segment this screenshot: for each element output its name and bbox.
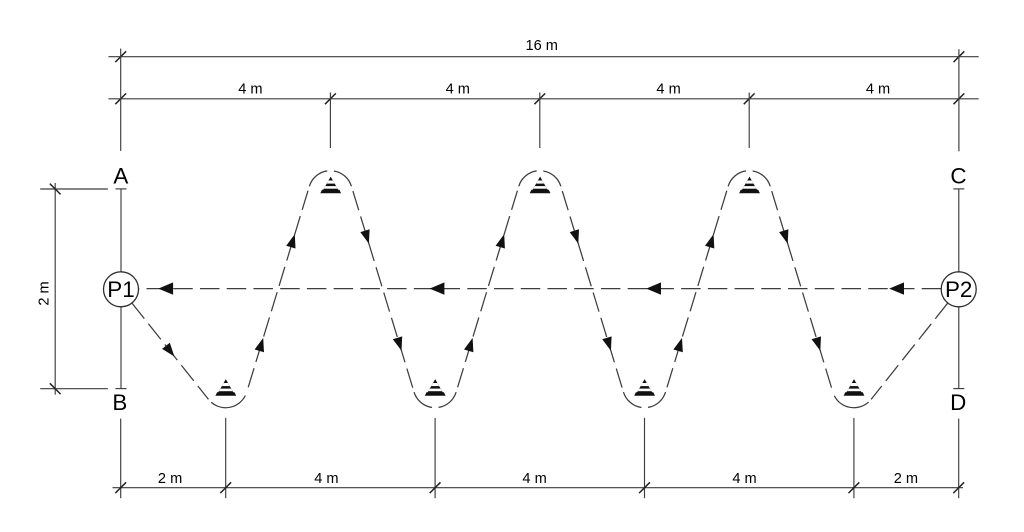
svg-text:2 m: 2 m [894, 471, 918, 487]
slalom arrow up between x644 and x749 [705, 234, 714, 248]
extension line to peak cone 2 [539, 93, 541, 149]
svg-text:4 m: 4 m [732, 471, 756, 487]
svg-text:4 m: 4 m [446, 82, 470, 98]
slalom turn arc around peak cone at x=749 [728, 171, 770, 187]
slalom turn arc around valley cone at x=644 [623, 392, 665, 408]
extension line below valley cone 2 [434, 418, 436, 498]
return arrow 1 [158, 282, 173, 294]
slalom arrow down between x539 and x644 [602, 336, 611, 350]
svg-text:16 m: 16 m [525, 38, 557, 54]
slalom arrow up between x435 and x539 [496, 234, 505, 248]
extension line left at B level [40, 388, 108, 390]
extension line below valley cone 3 [644, 418, 646, 498]
return arrow 3 [646, 282, 661, 294]
slalom arrow up between x435 and x539 [464, 338, 473, 352]
slalom arrow up between x225 and x330 [286, 234, 295, 248]
extension line below D [958, 419, 960, 499]
extension line top left (above A) [120, 49, 122, 151]
return arrow 4 [889, 282, 904, 294]
traffic cone top 1 [320, 177, 341, 194]
extension line to peak cone 1 [329, 93, 331, 149]
traffic cone top 2 [530, 177, 551, 194]
slalom arrow down between x749 and x853 [812, 336, 821, 350]
slalom straight from x=225 to x=330 [247, 186, 310, 392]
svg-text:P2: P2 [945, 277, 972, 302]
dimension line 4 m chain (second row) [108, 82, 978, 105]
point P1 circle [104, 272, 139, 307]
slalom straight P1 down to cone B1 [132, 303, 209, 399]
slalom turn arc around valley cone at x=435 [414, 392, 456, 408]
slalom arrow up between x225 and x330 [255, 338, 264, 352]
slalom straight from x=644 to x=749 [666, 186, 729, 392]
slalom arrow down between x749 and x853 [779, 229, 788, 243]
dimension line 16 m (top) [108, 38, 978, 62]
traffic cone bottom 4 [844, 379, 865, 396]
slalom turn arc around valley cone at x=225 [208, 392, 246, 408]
slalom turn arc around peak cone at x=539 [519, 171, 561, 187]
svg-text:C: C [950, 163, 966, 188]
slalom arrow down between x330 and x435 [393, 336, 402, 350]
svg-text:4 m: 4 m [656, 82, 680, 98]
slalom arrow down between x539 and x644 [570, 229, 579, 243]
slalom turn arc around peak cone at x=330 [309, 171, 351, 187]
traffic cone top 3 [739, 177, 760, 194]
extension line below valley cone 1 [225, 418, 227, 498]
slalom straight from x=330 to x=435 [351, 186, 414, 392]
svg-text:2 m: 2 m [37, 281, 53, 305]
gate line A-B (left start gate) [116, 189, 127, 389]
extension line below B [120, 419, 122, 499]
slalom straight from x=539 to x=644 [561, 186, 624, 392]
svg-text:4 m: 4 m [238, 82, 262, 98]
svg-text:4 m: 4 m [866, 82, 890, 98]
return line P2 to P1 dashed [139, 288, 942, 290]
svg-text:P1: P1 [107, 277, 134, 302]
extension line below valley cone 4 [853, 418, 855, 498]
traffic cone bottom 2 [425, 379, 446, 396]
extension line to peak cone 3 [748, 93, 750, 149]
dimension line 2 m (left vertical) [37, 183, 61, 395]
dimension line bottom chain 2m 4m 4m 4m 2m [113, 471, 965, 493]
svg-text:2 m: 2 m [158, 471, 182, 487]
slalom straight cone B4 up to P2 [871, 303, 948, 399]
slalom arrow segment P1 to cone B1 [162, 343, 174, 357]
extension line left at A level [40, 188, 108, 190]
svg-text:4 m: 4 m [314, 471, 338, 487]
svg-text:4 m: 4 m [522, 471, 546, 487]
slalom arrow up between x644 and x749 [673, 338, 682, 352]
slalom straight from x=749 to x=853 [770, 186, 833, 392]
return arrow 2 [430, 282, 445, 294]
traffic cone bottom 3 [634, 379, 655, 396]
slalom arrow down between x330 and x435 [360, 229, 369, 243]
gate line C-D (right gate) [953, 189, 964, 389]
slalom turn arc around valley cone B4 at x=853 [833, 392, 871, 408]
traffic cone bottom 1 [215, 379, 236, 396]
svg-text:B: B [112, 390, 127, 415]
svg-text:D: D [950, 390, 966, 415]
svg-text:A: A [113, 163, 128, 188]
slalom straight from x=435 to x=539 [456, 186, 519, 392]
point P2 circle [941, 272, 976, 307]
extension line top right (above C) [958, 49, 960, 151]
